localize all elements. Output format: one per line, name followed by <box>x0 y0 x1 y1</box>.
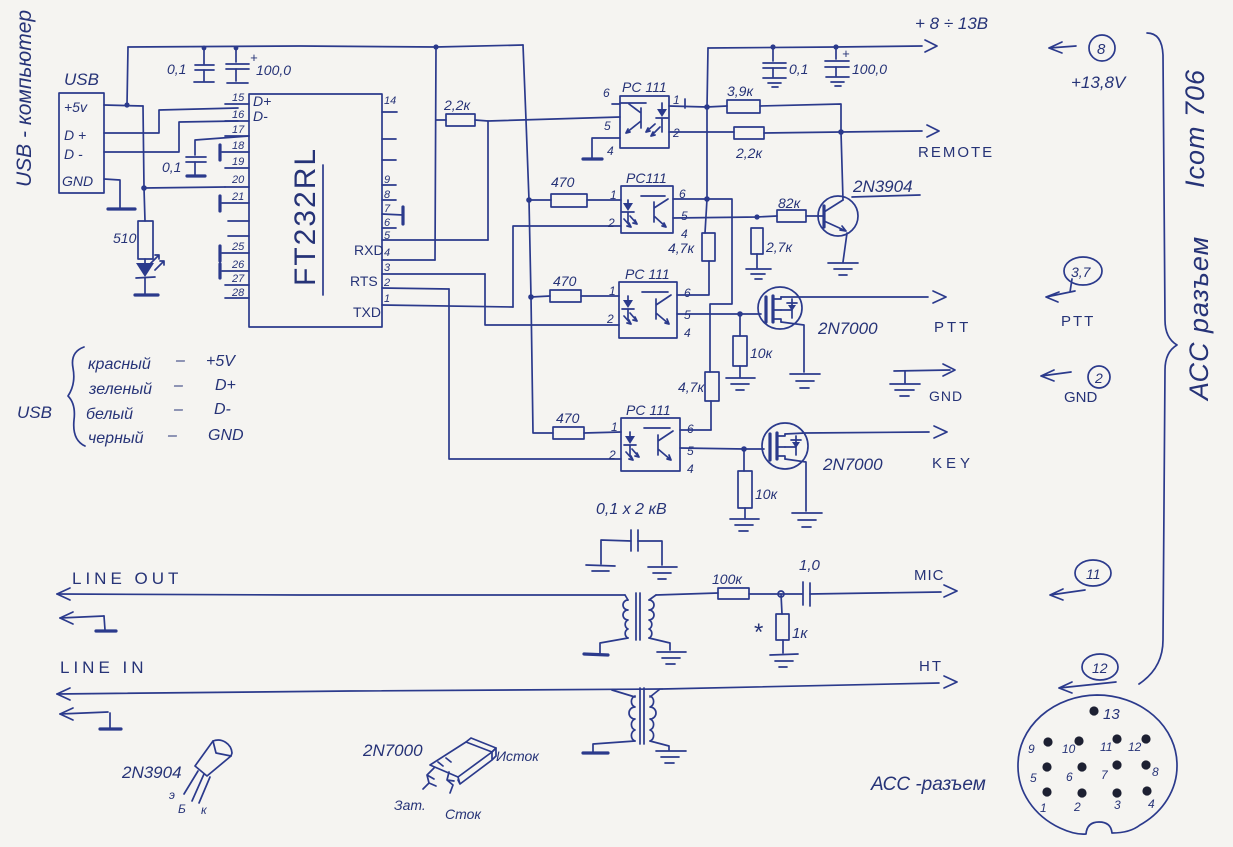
svg-text:RTS: RTS <box>350 273 378 289</box>
pin 8 <box>382 189 396 201</box>
pin 2 <box>382 277 449 289</box>
svg-text:USB: USB <box>17 403 52 422</box>
node pin8 circle <box>1089 35 1115 61</box>
svg-text:KEY: KEY <box>932 455 974 472</box>
pin 18 <box>220 140 249 160</box>
svg-text:+ 8 ÷ 13В: + 8 ÷ 13В <box>915 14 988 33</box>
svg-text:э: э <box>169 788 175 802</box>
svg-text:100,0: 100,0 <box>256 62 291 78</box>
pin 8 dot <box>1141 760 1159 779</box>
wire MIC line <box>656 593 718 595</box>
svg-text:1: 1 <box>673 93 680 107</box>
pin 14 <box>382 95 397 112</box>
svg-text:2: 2 <box>607 216 615 230</box>
ground opto1 <box>583 157 602 160</box>
svg-text:510: 510 <box>113 230 137 246</box>
node rail right <box>770 44 838 49</box>
svg-text:REMOTE: REMOTE <box>918 144 994 161</box>
svg-text:GND: GND <box>929 388 963 404</box>
resistor 4.7k first <box>668 233 715 261</box>
wire GND pin down <box>104 179 120 208</box>
pin 9 <box>382 174 396 186</box>
node 3.9k junction <box>704 104 710 202</box>
wire 2.2k right to opto1 pin5 <box>475 117 620 240</box>
svg-text:8: 8 <box>1152 765 1159 779</box>
pin nc stubs <box>228 221 249 236</box>
svg-text:470: 470 <box>551 174 575 190</box>
wire arrow pin11 <box>1050 589 1085 600</box>
svg-text:8: 8 <box>1097 41 1106 58</box>
ground GND stub <box>890 384 920 396</box>
wire TXD to opto2 pin2 <box>513 226 621 307</box>
svg-text:6: 6 <box>1066 770 1073 784</box>
transistor Q3 2N7000 KEY <box>762 423 808 469</box>
ground 2N7000 PTT <box>790 374 820 388</box>
wire RTS to opto3 pin2 <box>485 274 619 325</box>
node +5V junction <box>124 102 129 107</box>
node gate KEY 10k <box>741 446 747 452</box>
svg-text:4: 4 <box>607 144 614 158</box>
wire pin2 to opto4 pin2 <box>449 289 621 459</box>
svg-text:16: 16 <box>232 109 245 121</box>
svg-text:470: 470 <box>556 410 580 426</box>
LED indicator <box>136 255 164 294</box>
svg-text:1: 1 <box>384 293 390 305</box>
resistor 1k trimmer <box>754 594 808 653</box>
svg-text:82к: 82к <box>778 195 802 211</box>
transistor Q2 2N7000 PTT <box>758 287 802 329</box>
svg-text:4: 4 <box>687 462 694 476</box>
resistor 470 third opto <box>550 273 581 302</box>
svg-text:5: 5 <box>681 209 688 223</box>
wire shield arrow linein <box>60 708 121 729</box>
svg-text:4: 4 <box>684 326 691 340</box>
capacitor 0.1 top-left <box>167 48 214 82</box>
svg-text:2,2к: 2,2к <box>443 97 471 113</box>
svg-text:6: 6 <box>384 217 391 229</box>
svg-text:20: 20 <box>231 174 245 186</box>
svg-text:27: 27 <box>231 273 245 285</box>
svg-text:–: – <box>173 377 183 394</box>
svg-text:3,9к: 3,9к <box>727 83 754 99</box>
pin 1 dot <box>1040 787 1052 815</box>
pin 3 dot <box>1112 788 1121 812</box>
svg-text:FT232RL: FT232RL <box>289 147 322 286</box>
svg-text:D+: D+ <box>215 377 236 394</box>
svg-text:PTT: PTT <box>934 319 971 336</box>
svg-text:4: 4 <box>384 247 390 259</box>
wire opto2 pin5 to 82k <box>673 216 777 218</box>
svg-text:2: 2 <box>606 312 614 326</box>
svg-text:0,1: 0,1 <box>167 61 186 77</box>
ground 10k PTT <box>726 378 755 390</box>
wire +13.8V rail <box>708 40 937 52</box>
connector J1 USB box <box>59 93 104 193</box>
svg-text:+13,8V: +13,8V <box>1071 73 1127 92</box>
node mic junction <box>778 591 784 597</box>
svg-text:красный: красный <box>88 356 151 373</box>
svg-text:10: 10 <box>1062 742 1076 756</box>
svg-text:4,7к: 4,7к <box>678 379 705 395</box>
ground isolation right <box>648 567 677 579</box>
svg-text:1,0: 1,0 <box>799 557 821 574</box>
wire 470 leads opto4 <box>584 432 621 433</box>
opto U3 PC111 second <box>607 170 688 241</box>
svg-text:9: 9 <box>384 174 390 186</box>
svg-text:*: * <box>754 619 763 646</box>
svg-text:D-: D- <box>214 401 231 418</box>
svg-text:0,1: 0,1 <box>162 159 181 175</box>
svg-text:12: 12 <box>1128 740 1142 754</box>
wire arrow pin12 <box>1059 682 1116 693</box>
svg-text:5: 5 <box>687 444 694 458</box>
pin 11 dot <box>1100 734 1122 754</box>
node gate PTT 10k <box>737 311 743 317</box>
wire +5V top rail <box>128 45 523 47</box>
svg-text:АСС разъем: АСС разъем <box>1184 236 1214 402</box>
svg-text:2,2к: 2,2к <box>735 145 763 161</box>
svg-text:28: 28 <box>231 287 245 299</box>
wire pin17 to cap <box>195 136 249 155</box>
connector ACC outline <box>1018 695 1177 834</box>
wire arrow to pin8 <box>1049 42 1076 53</box>
pin 27 <box>225 273 249 285</box>
svg-text:2N7000: 2N7000 <box>822 455 883 474</box>
svg-text:LINE IN: LINE IN <box>60 658 148 677</box>
wire D+ to pin15 <box>104 108 238 133</box>
pin 10 dot <box>1062 736 1084 756</box>
wire opto4 pin6 pullup <box>680 429 711 431</box>
wire opto1 pin4 to ground <box>592 138 620 158</box>
svg-text:Б: Б <box>178 802 186 816</box>
pin 26 <box>220 259 249 278</box>
svg-text:6: 6 <box>687 422 694 436</box>
svg-text:+5V: +5V <box>206 353 236 370</box>
wire PTT drain out <box>781 291 946 303</box>
wire D- to pin16 <box>104 121 238 152</box>
svg-text:Icom 706: Icom 706 <box>1180 69 1210 188</box>
wire PTT source ground <box>781 322 804 372</box>
capacitor 0.1 reset <box>162 157 206 176</box>
pin 16 <box>225 109 249 121</box>
resistor 10k KEY <box>738 449 779 518</box>
svg-text:1к: 1к <box>792 625 808 642</box>
svg-text:5: 5 <box>1030 771 1037 785</box>
svg-text:2: 2 <box>608 448 616 462</box>
svg-text:RXD: RXD <box>354 242 384 258</box>
svg-text:GND: GND <box>62 173 93 189</box>
svg-text:2: 2 <box>1073 800 1081 814</box>
ground 2.7k <box>746 269 771 279</box>
svg-text:470: 470 <box>553 273 577 289</box>
wire +13.8V drop vertical <box>705 48 708 233</box>
svg-text:14: 14 <box>384 95 396 107</box>
svg-text:5: 5 <box>604 119 611 133</box>
svg-text:GND: GND <box>208 427 244 444</box>
resistor 10k PTT <box>733 314 774 377</box>
svg-text:–: – <box>173 401 183 418</box>
svg-text:HT: HT <box>919 658 943 675</box>
pin 3 RTS <box>350 262 485 289</box>
resistor 510 <box>113 221 153 259</box>
wire 2.2k left lead <box>436 119 446 121</box>
ground USB <box>108 207 135 210</box>
pin 6 <box>382 217 396 229</box>
resistor 2.2k remote <box>734 127 764 161</box>
ground T1 left <box>584 654 608 655</box>
wire pin20 to +5V node <box>144 187 225 188</box>
wire 470 leads opto3 <box>531 296 619 297</box>
wire REMOTE line <box>764 125 939 137</box>
transistor Q1 2N3904 <box>806 132 858 262</box>
svg-text:10к: 10к <box>750 345 774 361</box>
wire opto3 pin6 pullup <box>677 261 709 295</box>
resistor 470 second opto <box>551 174 587 207</box>
pin 28 <box>225 287 249 299</box>
wire opto4 pin5 gate KEY <box>680 448 764 449</box>
pin 2 dot <box>1073 788 1087 814</box>
label USB-computer vertical text <box>13 10 36 187</box>
wire +5V vertical distribution <box>523 45 553 433</box>
node pin12 circle <box>1082 654 1118 680</box>
pin 4 dot <box>1142 786 1155 811</box>
resistor 82k <box>777 195 806 222</box>
svg-text:2N7000: 2N7000 <box>362 741 423 760</box>
pin 7 dot <box>1101 760 1122 782</box>
wire LINE OUT <box>57 588 625 600</box>
svg-text:8: 8 <box>384 189 391 201</box>
ground 2N3904 <box>828 263 858 275</box>
wire opto1 pin1 <box>669 99 707 108</box>
svg-text:+: + <box>842 46 850 61</box>
node pin2 circle <box>1088 366 1110 388</box>
wire LINE IN <box>57 688 662 700</box>
pin 4 RXD <box>354 242 435 260</box>
wire 100k to node <box>749 593 802 595</box>
svg-text:2: 2 <box>1094 370 1103 386</box>
svg-text:USB: USB <box>64 70 99 89</box>
svg-text:2N3904: 2N3904 <box>852 177 913 196</box>
wire KEY source ground <box>785 459 806 511</box>
svg-text:11: 11 <box>1100 740 1112 754</box>
pin 5 dot <box>1030 762 1052 785</box>
svg-text:4: 4 <box>1148 797 1155 811</box>
wire +5V pin to rail <box>104 47 143 106</box>
capacitor 0.1 top-right <box>763 47 808 87</box>
svg-text:АСС -разъем: АСС -разъем <box>870 774 986 795</box>
wire HT line <box>662 676 957 689</box>
capacitor 100.0 top-left <box>226 48 291 83</box>
transformer T2 <box>593 688 669 752</box>
svg-text:11: 11 <box>1086 566 1101 582</box>
wire GND stub <box>894 364 955 383</box>
svg-text:4: 4 <box>681 227 688 241</box>
node pin3-7 circle <box>1064 257 1102 285</box>
resistor 2.7k <box>751 228 793 268</box>
svg-text:0,1: 0,1 <box>789 61 808 77</box>
node 470 junction PTT <box>526 197 534 300</box>
ground T2 left <box>583 751 608 754</box>
svg-text:21: 21 <box>231 191 244 203</box>
pin 21 <box>220 191 249 211</box>
resistor 470 fourth opto <box>553 410 584 439</box>
pin 6 dot <box>1066 762 1087 784</box>
resistor 3.9k <box>727 83 760 113</box>
svg-text:10к: 10к <box>755 486 779 502</box>
svg-text:12: 12 <box>1092 660 1108 676</box>
opto U4 PC111 third <box>606 266 691 340</box>
svg-text:зеленый: зеленый <box>88 381 152 398</box>
wire opto1 pin2 to 2.2k <box>669 131 734 133</box>
svg-text:3: 3 <box>384 262 391 274</box>
svg-text:25: 25 <box>231 241 245 253</box>
pin 12 dot <box>1128 734 1151 754</box>
capacitor 100.0 top-right <box>825 46 887 86</box>
wire VCCIO +5V down <box>143 106 145 221</box>
svg-text:PC 111: PC 111 <box>625 266 670 282</box>
svg-text:–: – <box>167 427 177 444</box>
svg-text:100к: 100к <box>712 571 743 587</box>
transistor package DPAK <box>394 738 540 822</box>
svg-text:3,7: 3,7 <box>1071 264 1092 280</box>
pin 17 <box>225 124 249 136</box>
label USB wire colors <box>17 347 244 447</box>
svg-text:D -: D - <box>64 146 83 162</box>
ground 10k KEY <box>730 519 759 531</box>
svg-text:17: 17 <box>232 124 245 136</box>
svg-text:5: 5 <box>684 308 691 322</box>
opto U2 PC111 top <box>603 79 680 158</box>
svg-text:2: 2 <box>383 277 390 289</box>
ground 2N7000 KEY <box>792 513 822 527</box>
wire shield arrow lineout <box>60 612 116 631</box>
svg-text:100,0: 100,0 <box>852 61 887 77</box>
opto U5 PC111 fourth <box>608 402 694 476</box>
svg-text:19: 19 <box>232 156 244 168</box>
svg-text:5: 5 <box>384 230 391 242</box>
svg-text:D +: D + <box>64 127 86 143</box>
svg-text:D-: D- <box>253 108 268 124</box>
node 82k 2.7k junction <box>754 214 759 219</box>
svg-text:2N3904: 2N3904 <box>121 763 182 782</box>
svg-text:D+: D+ <box>253 93 271 109</box>
svg-text:–: – <box>175 352 185 369</box>
resistor 2.2k RXD pullup <box>443 97 475 126</box>
pin 5 <box>382 230 488 242</box>
svg-text:13: 13 <box>1103 706 1120 723</box>
ground T2 right <box>656 751 686 763</box>
svg-text:белый: белый <box>86 406 133 423</box>
ground T1 right <box>657 652 686 664</box>
pin 25 <box>220 241 249 261</box>
svg-text:2: 2 <box>672 126 680 140</box>
wire arrow GND pin <box>1041 370 1071 381</box>
svg-text:+5v: +5v <box>64 99 88 115</box>
pin 1 TXD <box>353 293 513 320</box>
svg-text:PC 111: PC 111 <box>622 79 667 95</box>
svg-text:0,1 х 2 кВ: 0,1 х 2 кВ <box>596 501 667 518</box>
svg-text:3: 3 <box>1114 798 1121 812</box>
svg-text:USB - компьютер: USB - компьютер <box>13 10 36 187</box>
svg-text:черный: черный <box>88 430 144 447</box>
svg-text:2N7000: 2N7000 <box>817 319 878 338</box>
ground 1k <box>770 654 798 667</box>
transformer T1 <box>600 593 670 653</box>
svg-text:Зат.: Зат. <box>394 797 426 813</box>
svg-text:4,7к: 4,7к <box>668 240 695 256</box>
label 2N3904 <box>852 177 920 197</box>
node pin11 circle <box>1075 560 1111 586</box>
svg-text:LINE OUT: LINE OUT <box>72 569 182 588</box>
svg-text:6: 6 <box>603 86 610 100</box>
svg-text:Исток: Исток <box>496 748 540 764</box>
pin 19 <box>225 156 249 168</box>
brace ACC socket <box>1139 33 1177 684</box>
svg-text:9: 9 <box>1028 742 1035 756</box>
svg-text:PC111: PC111 <box>626 170 667 186</box>
transistor package TO-92 <box>169 740 232 817</box>
ground isolation left <box>586 565 615 571</box>
resistor 4.7k second <box>678 372 719 430</box>
svg-text:Сток: Сток <box>445 806 482 822</box>
pin 20 <box>225 174 249 187</box>
svg-text:26: 26 <box>231 259 245 271</box>
svg-text:18: 18 <box>232 140 245 152</box>
wire cap to MIC arrow <box>810 585 957 597</box>
capacitor 0.1 2kV isolation <box>601 530 662 565</box>
IC U1 FT232RL body <box>249 94 382 327</box>
svg-text:PC 111: PC 111 <box>626 402 671 418</box>
svg-text:GND: GND <box>1064 389 1098 406</box>
node remote junction <box>838 129 844 135</box>
wire RXD pullup vertical <box>435 47 436 260</box>
svg-text:PTT: PTT <box>1061 313 1095 330</box>
svg-text:2,7к: 2,7к <box>765 239 793 255</box>
wire opto3 pin5 gate PTT <box>677 313 761 315</box>
wire KEY drain out <box>785 426 947 438</box>
ground LED <box>135 293 158 296</box>
pin 9 dot <box>1028 737 1053 756</box>
svg-text:1: 1 <box>1040 801 1047 815</box>
wire 3.9k leads <box>707 104 841 132</box>
resistor 100k <box>712 571 749 599</box>
svg-text:MIC: MIC <box>914 567 945 584</box>
node rail caps junctions <box>202 44 439 50</box>
wire opto2 pin6 to +13.8 and down <box>673 199 732 372</box>
svg-text:6: 6 <box>684 286 691 300</box>
label USB <box>64 70 99 89</box>
svg-text:15: 15 <box>232 92 245 104</box>
pin 15 <box>225 92 249 104</box>
capacitor 1.0 <box>799 557 821 606</box>
pin 7 with ground tick <box>382 203 403 224</box>
svg-text:7: 7 <box>384 203 391 215</box>
pin 13 dot <box>1089 706 1120 723</box>
wire arrow PTT pin <box>1046 279 1075 302</box>
wire 470 leads opto2 <box>529 199 621 201</box>
svg-text:TXD: TXD <box>353 304 381 320</box>
pin stubs right nc <box>382 139 396 160</box>
label D+ D- inside chip <box>253 93 271 124</box>
node pin20 junction <box>141 185 147 191</box>
